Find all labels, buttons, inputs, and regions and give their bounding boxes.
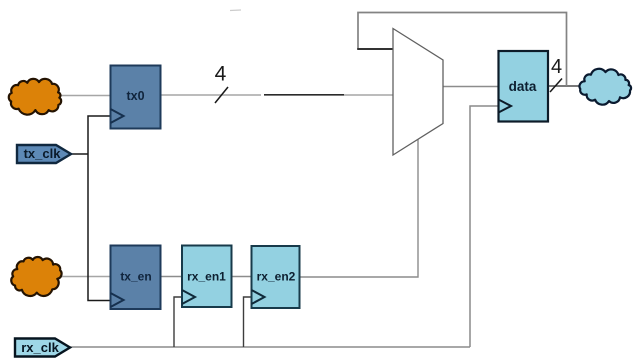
svg-text:rx_en1: rx_en1 xyxy=(187,270,226,284)
svg-text:4: 4 xyxy=(215,63,227,86)
svg-text:tx_en: tx_en xyxy=(120,270,151,284)
svg-text:rx_clk: rx_clk xyxy=(21,340,59,355)
svg-text:4: 4 xyxy=(551,56,562,78)
svg-text:tx_clk: tx_clk xyxy=(24,146,62,161)
svg-text:tx0: tx0 xyxy=(126,89,144,103)
svg-text:rx_en2: rx_en2 xyxy=(257,270,296,284)
svg-text:data: data xyxy=(509,79,537,94)
